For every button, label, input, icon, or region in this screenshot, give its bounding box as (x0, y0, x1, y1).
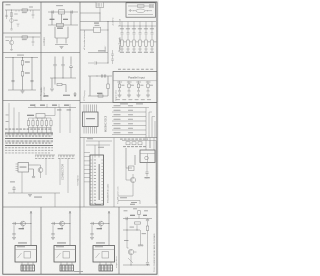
value label R2 (22, 38, 27, 41)
cell2 Cb wire (52, 225, 54, 237)
ctrl box label (27, 115, 34, 116)
cell1 relay inner label (17, 246, 25, 247)
capacitor C7 (71, 10, 72, 13)
U7 label (95, 24, 100, 27)
wire U2 down (99, 8, 101, 14)
cell1 rail (12, 223, 31, 225)
ground G3 (21, 91, 25, 93)
resistor R6 (57, 83, 62, 85)
box crystal mark (150, 5, 154, 8)
ground G8 (144, 177, 149, 179)
cell4 bottom cap (146, 263, 149, 264)
wire osc rail2 (48, 24, 78, 26)
label above rail cell3 (17, 54, 24, 57)
right serial drops (60, 108, 70, 134)
capacitor C8 (53, 65, 56, 66)
U5 inner name (99, 164, 100, 200)
cell2 feed wire (69, 211, 71, 245)
cell1 Q stub (22, 226, 24, 230)
U2 ticks (97, 3, 101, 7)
resistor array row (27, 121, 29, 126)
labels bottom left (34, 197, 42, 198)
cell2 relay stubs (61, 262, 72, 265)
parallel caps (118, 91, 121, 92)
serial top rail (28, 107, 76, 109)
wire rs232 mid (50, 66, 76, 78)
wire power left rail2 (80, 29, 94, 31)
wire R4 tail (22, 76, 24, 90)
wire Q2 leads (11, 37, 13, 50)
pin number row 3 (5, 152, 7, 155)
wire rail to ctrl (45, 108, 55, 116)
wire bottom rail cell3 (8, 89, 36, 91)
divider under cell2 (3, 52, 41, 54)
parallel tails (120, 88, 149, 91)
cell3 terminal strip (99, 265, 113, 271)
wire R3-R4 (22, 58, 24, 72)
resistor array tails (29, 126, 52, 134)
wire right drop to divider (54, 193, 56, 207)
cell4 ground hatch (138, 244, 143, 246)
capacitor C4 (11, 81, 14, 82)
right serial labels (57, 109, 62, 112)
U3 inner label (86, 118, 95, 119)
resistor R3 (21, 61, 23, 66)
left feed labels (6, 114, 9, 117)
divider under left serial cells (3, 100, 80, 102)
cell2 terminal strip (60, 265, 74, 271)
cell4 Q8 leads (127, 248, 137, 265)
capacitor C9 (61, 65, 64, 66)
cell3 relay inner label (95, 246, 103, 247)
cell3 value label (97, 228, 103, 229)
cell1 value label (19, 228, 25, 229)
divider under uP rows (80, 137, 157, 139)
tick cluster B labels (58, 157, 60, 160)
relay box K0 (140, 150, 155, 163)
wire drop x33 (32, 10, 34, 14)
cell2 capacitor Cb (51, 234, 54, 235)
box node dots (146, 9, 149, 12)
resistor array top wire (29, 117, 52, 119)
wire rail cell1 (5, 9, 40, 11)
parallel pin numbers (116, 98, 120, 101)
U5 inner vline (92, 155, 94, 205)
cell3 Cb wire (91, 225, 93, 237)
keying caps pair (102, 74, 103, 77)
label R3 (25, 62, 30, 63)
decoder input stubs (84, 153, 90, 182)
cell2 capacitor Ca (53, 222, 54, 225)
wire rs232 low (52, 78, 66, 92)
cell3 rail (90, 223, 109, 225)
Q2 ground dash (10, 50, 13, 51)
cell4 cap A (126, 217, 127, 220)
label Q1 (14, 19, 18, 22)
value label R1 (22, 11, 27, 14)
seq cluster labels (123, 145, 126, 148)
cell2 node dot feed (69, 223, 70, 224)
ground G7 (28, 195, 32, 197)
label +5V (98, 50, 105, 51)
cell2 value label (58, 228, 64, 229)
box rail mid (133, 10, 152, 12)
bottom cell divider 2 (79, 207, 81, 274)
node dot y63 (108, 63, 109, 64)
mic jack mark (17, 24, 20, 27)
label R8 (97, 93, 103, 94)
wire osc rail1 (48, 11, 78, 13)
cap C14 (145, 172, 148, 173)
wire osc down (55, 27, 68, 38)
cell2 terminal midline (60, 267, 74, 269)
cell2 rail (51, 223, 70, 225)
resistor R4 (21, 72, 23, 77)
cell4 resistor feed (138, 211, 140, 215)
power caps plates (121, 33, 124, 34)
cell4 wire gnd (140, 230, 142, 245)
node dots cell3 (12, 57, 13, 58)
divider decoder left (83, 138, 85, 208)
cell4 wire right down (147, 231, 149, 263)
bottom cell divider 3 (118, 207, 120, 274)
cell1 feed arrow (30, 211, 32, 214)
cell4 mid labels (130, 226, 135, 229)
seq resistor boxes row (126, 142, 130, 145)
node dots rs232 (54, 77, 55, 78)
wire U7 right (101, 29, 109, 31)
wire col x112 (112, 50, 114, 64)
node dot U2 (100, 13, 101, 14)
connector inner text row 2 (6, 142, 8, 145)
cell3 capacitor Cb (90, 234, 93, 235)
power bus rail B (118, 25, 156, 27)
node dot A (10, 9, 13, 12)
parallel resistors (118, 84, 120, 88)
top row labels (120, 103, 128, 104)
capacitor C12 (32, 177, 35, 178)
resistor R7 (107, 84, 109, 89)
cell1 relay inner top (15, 249, 37, 251)
capacitor C1 (5, 15, 8, 16)
wire rail y52 (88, 52, 108, 54)
capacitor C6 (52, 10, 53, 13)
power electrolytic labels (124, 41, 127, 44)
keying bottom rail (88, 95, 108, 97)
cell1 node dot feed (30, 223, 31, 224)
cell2 ground (51, 238, 55, 240)
uP IC U3 box (83, 112, 99, 127)
cell2 Q stub (61, 226, 63, 230)
U5 pin number column (94, 159, 96, 162)
tick cluster A (35, 154, 55, 156)
wire rs232 tops (55, 57, 71, 65)
cell2 terminal teeth (61, 265, 71, 271)
resistor R8 (98, 95, 103, 97)
wire left drop (12, 58, 14, 91)
drops to resistor row (29, 118, 52, 121)
U3 inner line (84, 112, 86, 127)
U3 bottom pins (84, 127, 97, 134)
power bank grounds (120, 49, 123, 51)
transistor Q4 (130, 177, 135, 182)
divider top-left column (40, 2, 42, 101)
wire C3 tail (32, 43, 34, 46)
wire right drop (31, 58, 33, 91)
K0 inner (140, 154, 155, 163)
bus vertical lines (146, 108, 155, 138)
U3 top pins (84, 105, 97, 113)
ctrl box (36, 114, 45, 119)
wire rail cell3 (5, 57, 38, 59)
seq component box (129, 166, 135, 171)
transistor Q1 (10, 19, 14, 23)
capacitor C2 (32, 15, 35, 16)
Q4 leads (126, 168, 133, 196)
label above rail (29, 6, 33, 9)
cell2 feed arrow (69, 211, 71, 214)
power caps drops (122, 22, 152, 33)
cell1 Cb wire (13, 225, 15, 237)
capacitor C13 (12, 188, 15, 189)
wire drop cell2 (32, 37, 34, 41)
cell1 relay K box (15, 246, 37, 263)
page border frame (3, 2, 157, 274)
parallel labels (121, 84, 124, 87)
pin number row 2 (5, 149, 7, 152)
wires above U5 (86, 141, 112, 145)
node dots osc (51, 11, 52, 12)
seq mid wires (126, 148, 135, 168)
pin number row 1 (5, 146, 7, 149)
power caps labels (120, 27, 124, 30)
seq bottom rails (118, 196, 140, 204)
cell3 relay inner top (93, 249, 115, 251)
power bus rail A (80, 21, 156, 23)
cell4 node dots (126, 229, 127, 230)
cell4 drops (127, 219, 137, 249)
power input box (126, 3, 156, 17)
wire C2 tail (32, 16, 34, 18)
power electrolytic boxes (121, 40, 124, 46)
node dot B (32, 36, 35, 39)
cell2 relay inner label (56, 246, 64, 247)
cell4 node dots bottom (130, 264, 131, 265)
cell4 bottom rail (123, 264, 150, 266)
label cell2 left (6, 39, 10, 42)
crystal X1 (59, 10, 65, 14)
cell2 relay inner top (54, 249, 76, 251)
cell1 feed wire (30, 211, 32, 245)
connector J1 upper pins (6, 133, 53, 135)
ground G5 (50, 89, 54, 91)
cell4 top extra labels (124, 209, 128, 212)
value label 44.1 (63, 95, 70, 96)
left feed wires (9, 103, 19, 133)
bottom rail left section (8, 192, 60, 194)
cell3 Q stub (100, 226, 102, 230)
cell3 capacitor Ca (92, 222, 93, 225)
ground G4 (60, 47, 64, 49)
divider above bottom row (3, 206, 157, 208)
serial rail stubs (35, 104, 70, 108)
box rail top (128, 5, 153, 7)
cell4 resistor mid (135, 222, 141, 224)
divider under cell1 (3, 32, 41, 34)
transistor Q3 (38, 168, 43, 173)
box resistor (138, 5, 145, 8)
parallel cap tails (120, 92, 149, 95)
labels above bottom divider (95, 203, 101, 206)
tick cluster A labels (35, 157, 37, 160)
labels above U5 (87, 138, 93, 139)
cell4 diag (128, 258, 133, 263)
cell3 transistor Q (99, 221, 104, 226)
capacitor C3 (32, 42, 35, 43)
box oval component (136, 9, 145, 13)
capacitor C5 (30, 81, 33, 82)
wire K0 down (146, 163, 148, 167)
keying top rail (88, 75, 112, 77)
wire osc verticals (52, 12, 71, 25)
labels osc (50, 19, 55, 20)
capacitor C11 (95, 61, 96, 64)
component bottom right cell (74, 92, 77, 97)
tick cluster B (58, 154, 75, 156)
cell4 labels rail1 (130, 215, 135, 216)
seq bottom labels (120, 197, 127, 198)
cell3 feed arrow (108, 211, 110, 214)
diode D1 (69, 65, 72, 68)
cell2 relay K box (54, 246, 76, 263)
seq cluster labels top (120, 138, 123, 141)
label RV1 (14, 13, 18, 16)
cell1 relay stubs (22, 262, 33, 265)
cell3 relay inner box (102, 252, 109, 259)
label stack left of divider (44, 95, 49, 96)
U4 inner label (20, 167, 27, 168)
U5 top wires (95, 141, 99, 158)
Q1 ground dash (10, 29, 13, 30)
cell1 terminal midline (21, 267, 35, 269)
page number bottom (74, 271, 83, 272)
potentiometer RV1 (10, 13, 13, 17)
parallel col wires (120, 81, 149, 84)
cell1 transistor Q (21, 221, 26, 226)
labels above connector (5, 128, 8, 131)
cell1 relay label (18, 242, 27, 243)
value 4.7 label (94, 23, 99, 24)
wire branch x6.5 (6, 10, 8, 19)
cell3 relay label (96, 242, 105, 243)
small IC U4 box (18, 163, 29, 173)
regulator U2 box (96, 2, 104, 7)
labels above parallel box (118, 68, 121, 71)
power rail dots (121, 25, 124, 28)
U4 left pins (16, 164, 19, 171)
Q3 leads (38, 165, 41, 178)
seq top cluster rail (122, 140, 146, 142)
box diode arrow (129, 9, 132, 12)
connector J1 lower pins (6, 140, 53, 142)
buffer U1 (55, 38, 68, 45)
cell1 ground (12, 238, 16, 240)
connector J1 mid rail (5, 138, 53, 140)
divider decoder right (113, 138, 115, 208)
cell1 terminal strip (21, 265, 35, 271)
label R4 (25, 73, 30, 74)
transistor Q2 (9, 40, 13, 44)
cell4 cap B col (146, 220, 149, 221)
bus continuation into seq (146, 138, 154, 151)
wires from U4 (29, 165, 39, 176)
label 4MHz top (56, 4, 63, 7)
cell1 relay inner box (24, 252, 31, 259)
uP signal rows (112, 107, 146, 109)
decoder IC U5 box (90, 155, 104, 205)
divider under crystal cell (41, 52, 80, 54)
resistor R1 (22, 9, 28, 11)
connector inner text row (6, 135, 8, 138)
cell1 capacitor Cb (12, 234, 15, 235)
connector J1 top rail (5, 132, 53, 134)
parallel grounds (118, 95, 122, 97)
cell3 relay K box (93, 246, 115, 263)
parallel input box (113, 72, 157, 103)
cell4 wire rail2 (123, 229, 140, 231)
keying drops (90, 76, 108, 96)
drops from clusters (46, 158, 68, 193)
cell1 capacitor Ca (14, 222, 15, 225)
resistor R2 (22, 36, 28, 38)
wire U4 down (21, 172, 23, 193)
cell3 relay stubs (100, 262, 111, 265)
resistor R5 (57, 23, 64, 26)
cell2 relay inner box (63, 252, 70, 259)
power bank tails (122, 46, 152, 49)
R7 tail (107, 89, 109, 97)
cell1 terminal teeth (22, 265, 32, 271)
box rail bottom (128, 14, 153, 16)
parallel header rule (113, 80, 157, 82)
wire vertical x108 (107, 22, 109, 64)
power bank bottom labels (120, 51, 124, 54)
cell3 feed wire (108, 211, 110, 245)
cell4 transistor Q8 (128, 249, 133, 254)
wire into bank (99, 13, 101, 22)
cell3 node dot feed (108, 223, 109, 224)
divider above uP rows (80, 102, 157, 104)
cell2 relay diagonal (57, 253, 61, 258)
transistor Q1 chain (11, 10, 13, 29)
wire feed from divider (80, 12, 100, 14)
bottom cell divider 1 (40, 207, 42, 274)
cell3 ground (90, 238, 94, 240)
serial rail labels (30, 105, 35, 106)
right edge wire (155, 141, 157, 205)
power caps mid wires (122, 34, 152, 40)
node dot keying (96, 75, 97, 76)
cell4 rail1 (123, 218, 152, 220)
resistor row bottom link (29, 127, 52, 129)
parallel top labels (117, 81, 119, 84)
bus corner joins (146, 108, 155, 117)
wire rail y63 (88, 62, 108, 64)
seq wires to edge (146, 141, 156, 149)
U5 pin ticks (90, 160, 104, 203)
regulator U7 box (94, 27, 101, 32)
wire rail cell2 (5, 36, 40, 38)
